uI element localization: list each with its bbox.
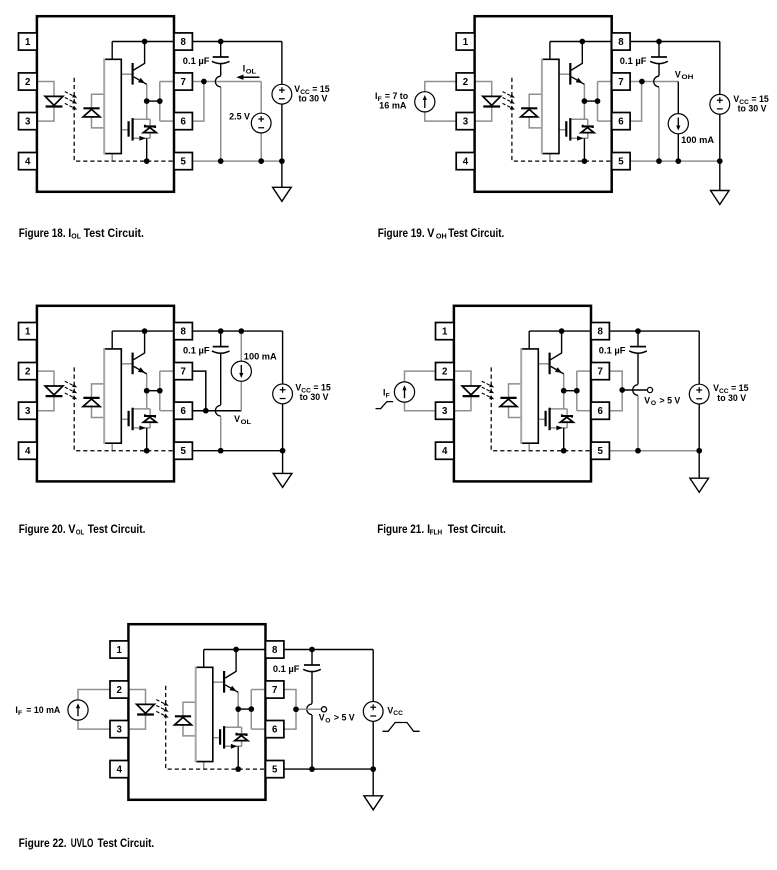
wire LED cathode to pin 3 [454, 396, 471, 411]
svg-text:8: 8 [618, 37, 624, 48]
amplifier block U1 [542, 59, 559, 153]
pin 3 box [456, 113, 474, 130]
voltage source VCC [272, 84, 292, 104]
capacitor C1 0.1 uF [311, 650, 313, 666]
svg-text:1: 1 [463, 37, 469, 48]
shield dashed boundary [512, 78, 612, 161]
svg-text:5: 5 [272, 765, 278, 776]
junction VCC-ground rail [370, 766, 376, 772]
wire MOSFET source lead [224, 745, 242, 747]
probe terminal VO [321, 707, 326, 712]
svg-text:CC: CC [393, 710, 403, 717]
pin 2 box [19, 363, 37, 380]
svg-text:7: 7 [181, 77, 186, 88]
svg-text:> 5 V: > 5 V [660, 395, 681, 405]
LED emitter diode [483, 96, 501, 105]
zener diode clamp [237, 733, 247, 736]
wire Q1 collector [571, 42, 582, 71]
junction source-pin5 [144, 158, 150, 164]
wire pin 2 to LED anode [128, 690, 145, 705]
pin 5 box [612, 153, 630, 170]
svg-text:6: 6 [181, 406, 187, 417]
wire pin 2 to LED anode [454, 371, 471, 386]
svg-text:to 30 V: to 30 V [717, 393, 746, 403]
svg-text:0.1 µF: 0.1 µF [273, 664, 300, 674]
wire MOSFET drain lead [133, 408, 151, 410]
svg-text:5: 5 [181, 446, 187, 457]
transistor Q1 emitter [134, 77, 147, 85]
wire hop capacitor over pin7 wire [215, 76, 220, 87]
svg-text:0.1 µF: 0.1 µF [599, 345, 626, 355]
pin 1 box [19, 33, 37, 50]
photodiode [521, 107, 537, 109]
IC body DIP-8 [37, 306, 174, 482]
wire pin 8 to VCC [630, 41, 720, 43]
wire capacitor to ground rail [637, 396, 639, 451]
VCC ramp waveform symbol [383, 723, 420, 732]
junction source-pin5 [561, 448, 567, 454]
wire VCC rail pin 8 internal [204, 649, 266, 651]
svg-text:2: 2 [442, 367, 447, 378]
junction pin8-cap [656, 39, 662, 45]
svg-text:Test Circuit.: Test Circuit. [84, 227, 144, 240]
wire Q1 emitter down to node [237, 692, 239, 709]
svg-text:V: V [427, 227, 435, 240]
light emission arrows [65, 381, 75, 386]
pin 6 box [591, 402, 609, 419]
wire photodiode cathode to amplifier [183, 702, 196, 715]
wire pin 8 to VCC [192, 41, 282, 43]
pin 3 box [19, 113, 37, 130]
svg-text:V: V [644, 395, 650, 405]
wire MOSFET source to pin 5 [146, 428, 148, 451]
wire amplifier output to Q1 base [538, 363, 548, 365]
transistor Q1 base bar [548, 353, 550, 375]
pin 7 box [174, 73, 192, 90]
wire MOSFET source lead [570, 137, 588, 139]
wire pin 6 to 100mA source [192, 410, 241, 412]
wire node row [147, 390, 160, 392]
MOSFET gate bar [128, 121, 130, 137]
junction source-pin5 [582, 158, 588, 164]
pin 5 box [174, 442, 192, 459]
svg-text:3: 3 [442, 406, 448, 417]
wire external bracket pins 7-6 [630, 82, 642, 122]
svg-text:V: V [675, 69, 681, 79]
wire pin 7 to 2.5V source [192, 81, 261, 83]
junction pin7-bracket [639, 79, 645, 85]
transistor Q1 emitter [571, 77, 584, 85]
MOSFET gate bar [128, 411, 130, 427]
wire to ground [698, 451, 700, 479]
junction pin8-cap [218, 39, 224, 45]
ground [690, 478, 709, 492]
svg-text:> 5 V: > 5 V [334, 713, 355, 723]
wire VCC source top lead [372, 650, 374, 702]
svg-text:Figure 18.: Figure 18. [19, 227, 66, 240]
wire photodiode cathode to amplifier [92, 384, 105, 397]
junction collector-rail [142, 328, 148, 334]
wire to ground [282, 451, 284, 474]
pin 3 box [436, 402, 454, 419]
amplifier block U1 [104, 59, 121, 153]
svg-text:Test Circuit.: Test Circuit. [448, 523, 506, 536]
wire amplifier ground stub [528, 443, 530, 451]
wire zener bottom lead [149, 133, 151, 139]
wire MOSFET source to pin 5 [583, 138, 585, 161]
junction emitter node [144, 388, 150, 394]
junction cap-ground rail [656, 158, 662, 164]
junction emitter node [144, 98, 150, 104]
wire Q1 collector [134, 331, 145, 360]
junction 100mA-ground rail [675, 158, 681, 164]
wire pin 7 jog down [192, 371, 206, 411]
wire photodiode anode to amplifier [509, 407, 522, 418]
junction collector-rail [559, 328, 565, 334]
wire to ground [281, 161, 283, 187]
wire LED cathode to pin 3 [128, 715, 145, 730]
wire amplifier output to MOSFET gate [121, 129, 127, 131]
IOL arrow [243, 76, 260, 78]
wire amplifier supply stub [528, 331, 530, 349]
zener diode clamp [562, 414, 572, 417]
pin 4 box [19, 442, 37, 459]
wire zener bottom lead [241, 741, 243, 747]
wire zener top lead [587, 119, 589, 125]
shield dashed boundary [491, 367, 591, 450]
svg-text:2: 2 [25, 367, 30, 378]
wire VCC source bottom lead [372, 721, 374, 769]
wire capacitor to ground rail [658, 87, 660, 161]
wire internal bracket pin 7 to pin 6 [597, 82, 599, 122]
wire amplifier output to MOSFET gate [559, 129, 565, 131]
svg-text:7: 7 [598, 367, 603, 378]
wire input source to pin 2 [425, 82, 456, 92]
svg-text:7: 7 [272, 685, 277, 696]
IF step waveform symbol [376, 402, 394, 409]
wire hop capacitor over probe wire [307, 704, 312, 715]
svg-text:V: V [319, 713, 325, 723]
pin 8 box [266, 641, 284, 658]
svg-text:3: 3 [25, 406, 31, 417]
junction node-bracket [574, 388, 580, 394]
wire pin 7 jog down [284, 690, 296, 730]
wire pin 8 to VCC [284, 649, 374, 651]
pin 5 box [266, 761, 284, 778]
junction pin7-pin6 jog [203, 408, 209, 414]
wire node row [584, 100, 597, 102]
wire hop capacitor over pin6 wire [215, 405, 220, 416]
wire LED cathode to pin 3 [37, 107, 54, 122]
ground [711, 191, 730, 205]
MOSFET source arrow [577, 136, 583, 141]
junction collector-rail [579, 39, 585, 45]
pin 4 box [19, 153, 37, 170]
wire Q1 collector [551, 331, 562, 360]
junction source-pin5 [144, 448, 150, 454]
pin 6 box [266, 721, 284, 738]
svg-text:0.1 µF: 0.1 µF [183, 345, 210, 355]
pin 8 box [591, 323, 609, 340]
wire amplifier output to Q1 base [121, 73, 131, 75]
svg-text:= 7 to: = 7 to [385, 91, 409, 101]
svg-text:OL: OL [241, 419, 252, 426]
junction pin8-100mA [238, 328, 244, 334]
junction bracket-probe [619, 387, 625, 393]
junction pin8-cap [309, 647, 315, 653]
svg-text:6: 6 [181, 117, 187, 128]
MOSFET channel bar [132, 118, 134, 141]
wire MOSFET drain lead [570, 118, 588, 120]
pin 7 box [591, 363, 609, 380]
svg-text:4: 4 [25, 446, 31, 457]
wire Q1 emitter down to node [563, 374, 565, 391]
pin 2 box [19, 73, 37, 90]
wire photodiode anode to amplifier [92, 117, 105, 128]
wire MOSFET drain lead [224, 726, 242, 728]
wire MOSFET source lead [133, 427, 151, 429]
junction collector-rail [233, 647, 239, 653]
wire MOSFET source to pin 5 [563, 428, 565, 451]
current source IF [415, 92, 435, 112]
pin 5 box [591, 442, 609, 459]
wire 100mA bottom lead [240, 381, 242, 411]
wire amplifier supply stub [549, 42, 551, 60]
svg-text:4: 4 [25, 157, 31, 168]
wire pin 5 ground rail [192, 160, 282, 162]
wire VCC source top lead [282, 331, 284, 384]
svg-text:O: O [325, 718, 330, 725]
pin 4 box [436, 442, 454, 459]
amplifier block U1 [196, 667, 213, 761]
pin 3 box [110, 721, 128, 738]
wire zener top lead [241, 727, 243, 733]
svg-text:5: 5 [181, 157, 187, 168]
wire amplifier ground stub [549, 154, 551, 162]
svg-text:FLH: FLH [430, 528, 442, 537]
svg-text:2: 2 [117, 685, 122, 696]
transistor Q1 base bar [132, 63, 134, 85]
wire photodiode cathode to amplifier [509, 384, 522, 397]
wire LED cathode to pin 3 [37, 396, 54, 411]
wire photodiode cathode to amplifier [529, 94, 542, 107]
MOSFET channel bar [223, 726, 225, 749]
svg-text:8: 8 [598, 327, 604, 338]
wire VCC source bottom lead [719, 114, 721, 161]
wire VCC rail pin 8 internal [529, 330, 591, 332]
wire VCC rail pin 8 internal [550, 41, 612, 43]
amplifier block U1 [104, 349, 121, 443]
svg-text:100 mA: 100 mA [681, 135, 715, 145]
wire photodiode anode to amplifier [183, 725, 196, 736]
LED emitter diode [45, 96, 63, 105]
svg-text:1: 1 [117, 645, 123, 656]
svg-text:F: F [18, 710, 22, 717]
wire VCC source top lead [719, 42, 721, 95]
junction pin8-cap [635, 328, 641, 334]
wire MOSFET source to pin 5 [146, 138, 148, 161]
pin 8 box [174, 33, 192, 50]
wire to ground [719, 161, 721, 190]
junction node-bracket [595, 98, 601, 104]
capacitor C1 0.1 uF [220, 42, 222, 58]
svg-text:8: 8 [272, 645, 278, 656]
wire VO probe [296, 708, 321, 710]
wire 100mA source bottom lead [677, 134, 679, 162]
transistor Q1 base bar [223, 671, 225, 693]
MOSFET source arrow [139, 136, 145, 141]
svg-text:8: 8 [181, 327, 187, 338]
wire hop capacitor over pin7 wire [654, 76, 659, 87]
svg-text:4: 4 [463, 157, 469, 168]
wire pin 2 to LED anode [37, 371, 54, 386]
light emission arrows [65, 92, 75, 97]
wire node to MOSFET drain [563, 391, 565, 409]
wire VCC source bottom lead [698, 404, 700, 451]
junction 2.5V-ground rail [258, 158, 264, 164]
wire VO probe [622, 389, 647, 391]
pin 1 box [19, 323, 37, 340]
junction pin7-bracket [201, 79, 207, 85]
junction node-bracket [157, 388, 163, 394]
svg-text:Figure 22.: Figure 22. [19, 837, 67, 850]
wire zener top lead [149, 409, 151, 415]
wire internal bracket pin 7 to pin 6 [159, 82, 161, 122]
voltage source VCC [689, 384, 709, 404]
transistor Q1 base bar [132, 353, 134, 375]
ground [364, 796, 383, 810]
wire node row [147, 100, 160, 102]
junction pin8-cap [218, 328, 224, 334]
junction bracket-probe [293, 706, 299, 712]
svg-text:4: 4 [442, 446, 448, 457]
wire node to MOSFET drain [146, 391, 148, 409]
wire node to MOSFET drain [146, 101, 148, 119]
voltage source VCC [273, 384, 293, 404]
svg-text:Figure 20.: Figure 20. [19, 523, 66, 536]
wire amplifier supply stub [111, 331, 113, 349]
wire amplifier ground stub [111, 443, 113, 451]
svg-text:= 15: = 15 [751, 94, 768, 104]
photodiode [500, 397, 516, 399]
wire node to internal pin 7 stub [577, 370, 591, 372]
zener diode clamp [145, 125, 155, 128]
wire photodiode anode to amplifier [92, 407, 105, 418]
junction cap-ground rail [218, 158, 224, 164]
amplifier block U1 [521, 349, 538, 443]
pin 8 box [174, 323, 192, 340]
wire pin 3 to input source [78, 720, 110, 729]
wire VCC source top lead [281, 42, 283, 85]
wire zener top lead [566, 409, 568, 415]
pin 4 box [110, 761, 128, 778]
zener diode clamp [145, 414, 155, 417]
svg-text:= 15: = 15 [731, 383, 748, 393]
svg-text:8: 8 [181, 37, 187, 48]
IC body DIP-8 [37, 16, 174, 192]
wire MOSFET source lead [133, 137, 151, 139]
wire zener bottom lead [149, 422, 151, 428]
wire VCC source bottom lead [282, 404, 284, 451]
svg-text:Test Circuit.: Test Circuit. [448, 227, 504, 240]
wire to ground [372, 769, 374, 796]
wire node to MOSFET drain [583, 101, 585, 119]
wire amplifier supply stub [111, 42, 113, 60]
svg-text:2.5 V: 2.5 V [229, 111, 250, 121]
wire MOSFET drain lead [550, 408, 568, 410]
wire capacitor to ground rail [220, 87, 222, 161]
junction VCC-ground rail [279, 158, 285, 164]
wire node row [564, 390, 577, 392]
wire pin 8 to VCC [192, 330, 282, 332]
svg-text:OL: OL [246, 69, 256, 76]
wire internal pin 6 stub [160, 120, 174, 122]
wire pin 5 ground rail [284, 768, 374, 770]
pin 1 box [456, 33, 474, 50]
svg-text:to 30 V: to 30 V [300, 392, 329, 402]
wire pin 7 jog down [609, 371, 622, 411]
wire 2.5V source top lead [260, 82, 262, 114]
pin 4 box [456, 153, 474, 170]
wire pin 2 to LED anode [37, 82, 54, 97]
capacitor C1 0.1 uF [637, 331, 639, 347]
pin 2 box [436, 363, 454, 380]
MOSFET channel bar [132, 408, 134, 431]
wire zener bottom lead [566, 422, 568, 428]
svg-text:2: 2 [463, 77, 468, 88]
pin 1 box [436, 323, 454, 340]
wire internal pin 6 stub [251, 728, 265, 730]
svg-text:1: 1 [442, 327, 448, 338]
svg-text:7: 7 [181, 367, 186, 378]
wire internal pin 6 stub [598, 120, 612, 122]
svg-text:0.1 µF: 0.1 µF [620, 56, 647, 66]
wire amplifier supply stub [203, 650, 205, 668]
svg-text:5: 5 [618, 157, 624, 168]
svg-text:OL: OL [76, 528, 85, 537]
wire pin 3 to input source [425, 112, 456, 121]
junction source-pin5 [235, 766, 241, 772]
wire VCC rail pin 8 internal [112, 41, 174, 43]
wire zener bottom lead [587, 133, 589, 139]
wire MOSFET source lead [550, 427, 568, 429]
MOSFET gate bar [565, 121, 567, 137]
junction VCC-ground rail [717, 158, 723, 164]
shield dashed boundary [74, 78, 174, 161]
svg-text:Figure 19.: Figure 19. [378, 227, 425, 240]
current source IF 10 mA [68, 700, 88, 720]
svg-text:OH: OH [436, 232, 447, 241]
wire amplifier ground stub [203, 762, 205, 770]
wire VOH to 100mA source [677, 82, 679, 114]
IC body DIP-8 [475, 16, 612, 192]
wire input source to pin 2 [405, 371, 436, 382]
MOSFET source arrow [556, 426, 562, 431]
junction cap-ground rail [309, 766, 315, 772]
pin 5 box [174, 153, 192, 170]
current source 100 mA [668, 114, 688, 134]
wire pin 5 ground rail [630, 160, 720, 162]
junction node-bracket [157, 98, 163, 104]
wire pin 5 ground rail [609, 450, 699, 452]
wire capacitor to ground rail [220, 416, 222, 450]
current source IF [394, 382, 414, 402]
LED emitter diode [137, 704, 155, 713]
wire pin 8 to VCC [609, 330, 699, 332]
wire pin 7 to VOH node [630, 81, 678, 83]
svg-text:1: 1 [25, 37, 31, 48]
IC body DIP-8 [128, 624, 265, 800]
